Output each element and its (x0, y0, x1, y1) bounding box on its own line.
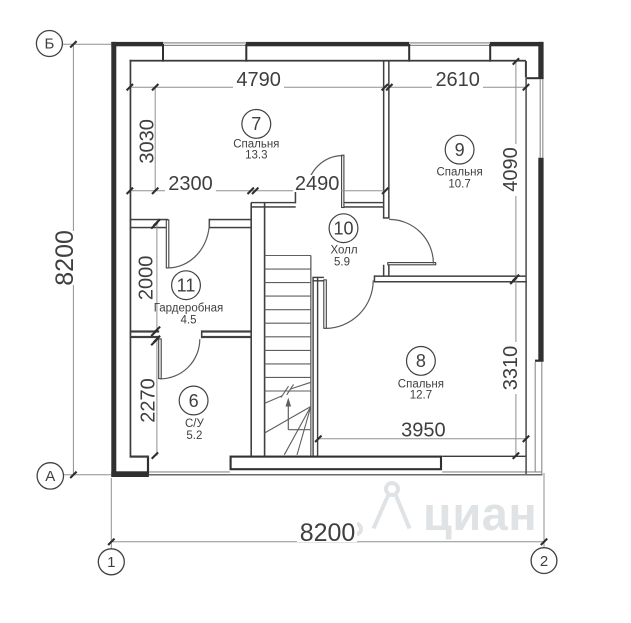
bottom wall outer thin line (111, 474, 542, 476)
svg-text:10.7: 10.7 (448, 178, 470, 190)
hall top wall segment A (251, 202, 296, 203)
wall room7-room9 vertical (383, 61, 385, 219)
right wall inner face (525, 77, 527, 456)
svg-text:4.5: 4.5 (181, 314, 197, 326)
ticks on 8200 left (70, 41, 76, 47)
wall closet-su east part (201, 330, 251, 332)
closet top wall east part (209, 219, 251, 221)
svg-text:4090: 4090 (500, 147, 522, 192)
svg-text:8200: 8200 (51, 230, 79, 286)
stair treads (265, 256, 311, 392)
wall room7-room9 end cap (383, 217, 390, 219)
svg-text:3950: 3950 (401, 420, 446, 442)
svg-text:3310: 3310 (500, 346, 522, 391)
door room9 arc (389, 219, 433, 263)
bottom wall corner pier east edge (147, 457, 149, 474)
svg-text:1: 1 (107, 554, 115, 571)
watermark cian logo (350, 483, 410, 535)
door room7 arc (308, 156, 343, 191)
dim text 3310 (rotated) (501, 342, 519, 394)
svg-text:2000: 2000 (136, 256, 158, 301)
axis line B (62, 43, 111, 45)
room 11 label (172, 271, 201, 300)
svg-text:3030: 3030 (136, 119, 158, 164)
dim text 2610 (432, 71, 483, 88)
left wall outer band (111, 42, 116, 477)
bottom wall corner pier band (111, 471, 149, 477)
room 9 label (445, 135, 474, 164)
stair lower diagonal (265, 407, 311, 433)
axis circle B (36, 31, 62, 57)
dim line 8200 bottom (111, 541, 544, 543)
door room8 leaf (324, 280, 327, 328)
svg-text:5.2: 5.2 (186, 430, 202, 442)
dimension slash ticks (70, 41, 547, 545)
svg-text:Спальня: Спальня (233, 138, 279, 150)
stairwell left wall (250, 203, 252, 457)
svg-text:2490: 2490 (295, 173, 340, 195)
right wall outer band mid pier (538, 158, 543, 361)
ticks on 4790/2610 line (127, 84, 133, 90)
svg-text:Гардеробная: Гардеробная (154, 303, 224, 315)
room 8 label (407, 347, 436, 376)
stair winder fan lines (284, 407, 311, 455)
hall top wall segment C (344, 202, 384, 203)
svg-text:Холл: Холл (330, 244, 357, 256)
door room9 leaf (388, 263, 436, 265)
door su arc (160, 339, 200, 379)
dim line top interior 4790/2610 (130, 86, 526, 88)
svg-text:2300: 2300 (168, 173, 213, 195)
bottom wall window line right (442, 471, 542, 472)
dim text 8200 bottom (297, 520, 357, 542)
door room7 leaf (342, 155, 344, 207)
room 6 label (179, 386, 208, 415)
dim text 4790 (233, 71, 284, 88)
top wall window B lines (409, 42, 490, 43)
axis circle 2 (531, 548, 557, 574)
right wall corner cap (526, 77, 544, 79)
axis line 2 (543, 473, 545, 547)
ticks on 4090/3310 line (513, 58, 519, 64)
top window A jambs (162, 44, 164, 62)
bottom wall hollow rect (231, 457, 441, 470)
stair direction arrow (288, 403, 310, 430)
dim text 3950 (398, 420, 449, 437)
wall hall-room8 stub (312, 277, 324, 278)
door closet arc (168, 222, 210, 268)
bottom wall corner pier inner stub (130, 456, 149, 458)
svg-text:С/У: С/У (185, 418, 205, 430)
right wall window W2 lines (535, 362, 536, 472)
dim line 4090 (515, 61, 517, 277)
ticks on 3950 line (315, 436, 321, 442)
axis circle A (37, 463, 63, 489)
wall stub below room9 door (383, 265, 385, 276)
stairwell right wall (312, 277, 313, 456)
svg-text:7: 7 (251, 114, 261, 134)
bottom wall inner line right (442, 456, 526, 457)
room 10 label (329, 214, 358, 243)
wall closet-su west part (130, 330, 160, 332)
dim text 8200 left (rotated) (53, 231, 76, 285)
closet top wall west part (130, 219, 169, 221)
dim text 2490 (293, 175, 341, 192)
stair tread right edge (310, 256, 311, 456)
top wall inner face (130, 60, 526, 62)
svg-text:8200: 8200 (300, 519, 356, 547)
ticks on 2000 line (154, 219, 160, 225)
right wall inner corner stub (525, 61, 527, 77)
ticks on 2270 line (154, 336, 160, 342)
right wall outer band top pier (538, 42, 543, 79)
svg-text:А: А (45, 468, 55, 485)
svg-text:4790: 4790 (236, 69, 281, 91)
top window B jambs (408, 44, 410, 62)
left wall inner face (130, 60, 132, 457)
svg-text:циан: циан (423, 487, 537, 540)
svg-text:12.7: 12.7 (410, 390, 432, 402)
svg-text:9: 9 (455, 140, 465, 160)
dim line 2000 (156, 222, 158, 329)
right wall window W1 lines (540, 79, 541, 158)
dim text 2000 (rotated) (137, 252, 154, 304)
dim text 3030 (rotated) (138, 116, 154, 167)
axis line 1 (110, 478, 112, 549)
svg-text:13.3: 13.3 (245, 150, 267, 162)
dim line 2300/2490 (130, 190, 387, 192)
svg-text:2270: 2270 (138, 378, 160, 423)
bottom wall window line left (149, 471, 230, 472)
svg-text:10: 10 (333, 219, 353, 239)
svg-text:Спальня: Спальня (436, 167, 482, 179)
dim text 2300 (165, 175, 216, 192)
door room8 arc (325, 280, 373, 328)
top wall outer band pier 3 (490, 42, 543, 46)
svg-text:5.9: 5.9 (334, 257, 350, 269)
axis line A (64, 474, 112, 476)
axis circle 1 (98, 549, 124, 575)
bottom-right window jamb (525, 456, 527, 474)
dim line 3310 (515, 278, 517, 456)
svg-text:2: 2 (540, 553, 548, 570)
dim text 2270 (rotated) (139, 375, 156, 427)
door closet leaf (166, 220, 169, 268)
ticks on 8200 bottom (108, 539, 114, 545)
hall top wall step connector (295, 191, 297, 204)
svg-text:Спальня: Спальня (398, 378, 444, 390)
top wall window A lines (163, 42, 246, 43)
room 7 label (242, 110, 271, 139)
dim text 4090 (rotated) (501, 144, 519, 196)
dim line 3030 (154, 87, 156, 191)
door su leaf (159, 339, 162, 379)
dim line 8200 left (72, 44, 74, 475)
dim line 3950 (318, 438, 526, 440)
svg-text:Б: Б (44, 36, 54, 53)
top wall outer band pier 1 (111, 42, 163, 46)
wall room9-room8 (374, 275, 526, 277)
dim line 2270 (156, 339, 158, 456)
ticks on 2300/2490 line (127, 188, 133, 194)
svg-text:6: 6 (189, 391, 199, 411)
stair break diagonal with zigzag (265, 382, 311, 403)
top wall outer band pier 2 (246, 42, 409, 46)
svg-text:8: 8 (416, 351, 426, 371)
svg-text:2610: 2610 (435, 69, 480, 91)
right wall pier bottom cap (535, 360, 544, 362)
svg-text:11: 11 (177, 276, 196, 296)
